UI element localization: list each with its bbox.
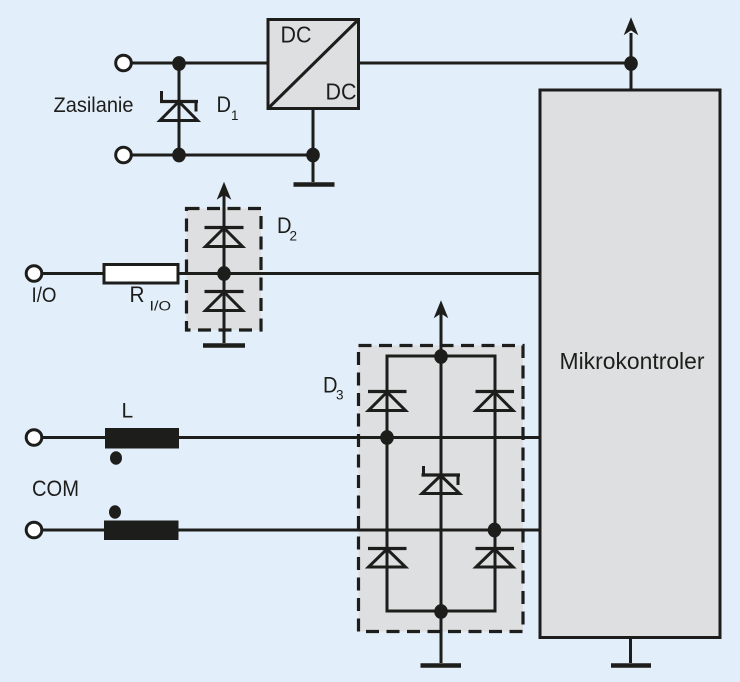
- wire: inductor L2 to bridge: [179, 529, 541, 532]
- wire: Vcc node down to microcontroller top: [630, 63, 633, 90]
- suppressor box D2 fill: [187, 209, 262, 331]
- suppressor D2 center branch wire: [223, 194, 226, 343]
- arrow: Vcc up at node: [624, 17, 639, 63]
- node: bridge bottom junction dot: [434, 604, 448, 619]
- arrow: D2 up: [217, 182, 232, 200]
- label R_I/O: [130, 282, 172, 314]
- terminal: COM: [26, 522, 42, 538]
- diode D3 bottom-left: [368, 549, 407, 568]
- svg-text:Zasilanie: Zasilanie: [54, 94, 134, 117]
- wire: DC/DC ground pin: [312, 109, 315, 183]
- inductor L1: [105, 428, 179, 449]
- wire: supply top rail T1 to DC/DC: [131, 62, 268, 65]
- wire: microcontroller ground pin: [629, 638, 632, 664]
- ground: DC/DC: [294, 182, 335, 187]
- TVS diode D1: [160, 91, 198, 121]
- wire: DC/DC output to Vcc node: [359, 62, 632, 65]
- wire: inductor L1 to bridge: [179, 436, 540, 439]
- svg-text:2: 2: [290, 229, 298, 244]
- terminal: supply -: [116, 147, 132, 163]
- ground: D2: [203, 343, 245, 348]
- node: ground pin junction dot: [306, 148, 320, 163]
- svg-text:DC: DC: [326, 79, 357, 105]
- label D3: [323, 373, 344, 403]
- label D1: [217, 92, 239, 123]
- terminal: L: [26, 430, 42, 446]
- svg-text:I/O: I/O: [150, 299, 172, 314]
- wire: supply bottom rail T2 to DC/DC ground pin: [131, 154, 313, 157]
- node: L2 phase dot: [109, 505, 121, 519]
- node: D1 top junction dot: [172, 56, 186, 71]
- node: D2 junction dot: [217, 266, 231, 281]
- resistor R_I/O: [104, 265, 178, 284]
- node: Vcc junction dot: [624, 56, 638, 71]
- microcontroller U1 box: [540, 90, 720, 638]
- suppressor box D3 dashed border: [359, 346, 524, 632]
- ground: D3: [421, 663, 462, 668]
- wire: COM terminal to inductor: [42, 529, 105, 532]
- suppressor box D2 dashed border: [187, 209, 262, 331]
- diode D3 top-right: [476, 392, 515, 411]
- svg-text:3: 3: [336, 388, 344, 403]
- arrow: D3 up: [434, 300, 449, 318]
- diode D3 top-left: [368, 392, 407, 411]
- svg-text:COM: COM: [32, 476, 79, 501]
- diode D2 upper: [205, 228, 244, 247]
- wire: resistor to microcontroller I/O pin: [178, 272, 540, 275]
- node: D1 bottom junction dot: [172, 148, 186, 163]
- wire: I/O terminal to resistor: [42, 272, 105, 275]
- terminal: supply +: [116, 55, 132, 71]
- node: bridge left junction dot: [380, 430, 394, 445]
- DC/DC converter U2: [268, 20, 359, 109]
- svg-text:L: L: [122, 400, 134, 423]
- wire: L terminal to inductor: [42, 436, 106, 439]
- ground: microcontroller: [611, 663, 651, 668]
- node: bridge right junction dot: [488, 523, 502, 538]
- diode D3 bottom-right: [476, 549, 515, 568]
- svg-text:I/O: I/O: [32, 284, 57, 307]
- bridge D3 center branch wire: [440, 313, 443, 663]
- svg-text:Mikrokontroler: Mikrokontroler: [560, 348, 705, 374]
- svg-text:D: D: [217, 92, 232, 117]
- node: bridge top junction dot: [434, 349, 448, 364]
- diode D2 lower: [205, 292, 244, 311]
- label D2: [277, 213, 297, 244]
- suppressor box D3 fill: [359, 346, 524, 632]
- wire: D1 vertical branch: [178, 63, 181, 155]
- svg-text:1: 1: [231, 108, 239, 123]
- svg-text:DC: DC: [281, 22, 312, 48]
- bridge D3 inner frame: [387, 356, 495, 611]
- terminal: I/O: [26, 266, 42, 282]
- TVS diode D3 center: [422, 466, 461, 494]
- inductor L2: [104, 521, 179, 541]
- svg-text:R: R: [130, 282, 145, 307]
- node: L1 phase dot: [110, 451, 122, 465]
